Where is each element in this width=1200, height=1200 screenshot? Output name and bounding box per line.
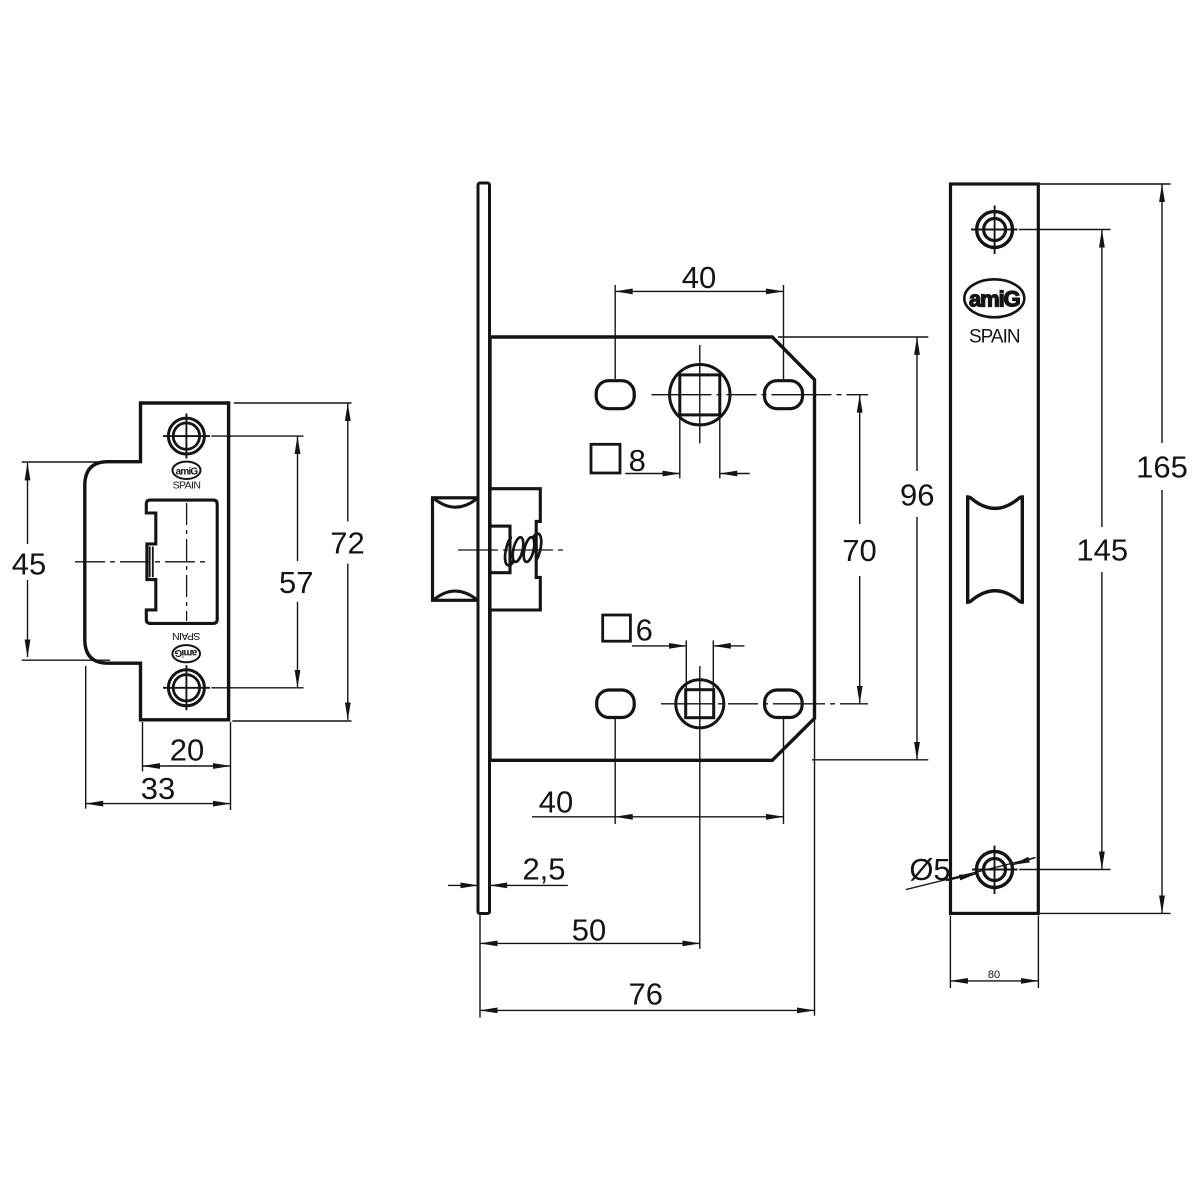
dim 40 bottom extension left [614,719,616,825]
latch bolt [433,498,479,601]
svg-text:8: 8 [629,443,646,478]
dim 72 extension top [234,402,352,404]
bottom row horizontal centerline [661,703,868,705]
spring end arc left [505,538,513,566]
oval hole top-left [596,381,634,409]
faceplate outline [951,184,1039,913]
dim 80 line [950,980,1038,982]
faceplate strip (side view) [478,183,490,914]
svg-text:70: 70 [842,533,876,568]
follower bottom vertical centerline [699,666,701,949]
follower square 8mm [680,375,720,415]
dim 45 line [27,463,29,544]
latch bolt bottom bevel arc [434,591,476,600]
dim 145 extension bottom [1019,869,1111,871]
svg-text:amiG: amiG [174,647,197,658]
svg-text:45: 45 [12,547,46,582]
svg-text:Ø5: Ø5 [909,852,950,887]
spring end stub left [510,538,513,562]
dim 2,5 line right [490,884,568,886]
dim 20 line [143,765,231,767]
svg-text:96: 96 [900,477,934,512]
lock case block behind faceplate [490,489,540,610]
dim 76 line [480,1009,815,1011]
dim 40 top extension left [614,285,616,379]
dim 33 line [86,803,231,805]
latch centerline [458,549,566,551]
svg-text:76: 76 [628,977,662,1012]
dim 57 extension bottom [211,687,303,689]
dim 96 line [916,337,918,471]
dim 40 bottom line [615,816,783,818]
dim 20/33 extension right [230,722,232,810]
dia5 leader arrow lower [946,874,977,881]
dim 40 top extension right [783,285,785,379]
follower top vertical centerline [699,345,701,443]
svg-text:145: 145 [1076,533,1128,568]
svg-text:SPAIN: SPAIN [173,630,201,642]
dim 96 extension bottom [812,759,928,761]
dim 8 line left [625,473,680,475]
strike plate outline with bent lip [85,403,229,720]
dim 20 extension left [142,722,144,772]
svg-text:SPAIN: SPAIN [969,326,1020,347]
dim 76 extension right [814,719,816,1016]
dim 145 extension top [1019,229,1111,231]
adjustable tongue inner lines [149,547,151,578]
cutout centerline horizontal [75,561,208,563]
follower circle top [670,365,730,425]
screw hole top [168,418,204,454]
dim 40 top line [615,290,783,292]
oval hole top-right [765,381,803,409]
svg-text:40: 40 [539,785,573,820]
dim 70 line [859,395,861,524]
dim 45 extension bottom [22,659,110,661]
dim 165 extension top [1040,183,1171,185]
dim 6 line right [713,645,744,647]
dim 6 extension left [685,640,687,689]
dim 165 line [1161,185,1163,444]
dim 40 bottom tail [532,816,615,818]
svg-text:50: 50 [572,912,606,947]
dim 6 extension right [712,640,714,689]
dia5 leader arrow upper [1012,858,1035,865]
svg-text:165: 165 [1136,450,1188,485]
top row horizontal centerline [652,394,869,396]
top screw hole [977,212,1013,248]
svg-text:57: 57 [279,565,313,600]
dim 33 extension left [85,666,87,809]
screw hole bottom [168,670,204,706]
dim 8 line right [720,473,750,475]
cutout centerline vertical [186,503,188,621]
svg-text:SPAIN: SPAIN [173,480,201,492]
svg-text:amiG: amiG [176,466,199,477]
oval hole bottom-right [765,690,803,718]
dim 50/76 extension left [479,915,481,1018]
svg-text:80: 80 [988,969,1000,981]
oval hole bottom-left [597,690,635,718]
dim 6 line left [632,645,686,647]
dim 165 extension bottom [1040,912,1171,914]
svg-text:33: 33 [141,771,175,806]
svg-text:6: 6 [636,613,653,648]
dim 80 extension right [1037,916,1039,989]
svg-text:2,5: 2,5 [522,851,565,886]
amig logo top [173,462,201,479]
svg-text:20: 20 [170,733,204,768]
spring coil 1 [511,536,526,563]
dim 8 extension right [719,416,721,479]
dim 45 extension top [22,461,110,463]
dia5 leader line through [906,858,1036,890]
dim 72 line [347,404,349,522]
latch tail block [490,526,510,573]
latch cutout with adjustable step [146,500,217,623]
latch bolt top bevel arc [434,499,476,508]
bottom screw hole [977,852,1013,888]
svg-text:72: 72 [330,526,364,561]
dim 50 line [480,942,700,944]
follower circle bottom [676,680,724,728]
svg-text:40: 40 [682,260,716,295]
dim 72 extension bottom [232,720,351,722]
dim 57 extension top [211,435,303,437]
dim 145 line [1101,230,1103,527]
dim 80 extension left [949,916,951,989]
lock body outline with chamfered right corners [490,337,815,760]
dim 57 line [297,437,299,562]
dim 8 extension left [679,416,681,479]
spring coil 2 [522,536,537,563]
svg-text:amiG: amiG [969,286,1020,311]
square symbol for 8mm [591,444,620,473]
spring end arc right [533,534,541,561]
latch window with concave ends [968,497,1023,602]
spring end stub right [534,538,536,561]
dim 40 bottom extension right [783,718,785,825]
amig logo bottom (inverted) [172,645,200,662]
square symbol for 6mm [603,615,631,641]
dim 96 extension top [778,336,928,338]
dim 2,5 line left [448,884,478,886]
follower square 6mm [686,690,714,718]
amig logo oval [964,279,1024,317]
